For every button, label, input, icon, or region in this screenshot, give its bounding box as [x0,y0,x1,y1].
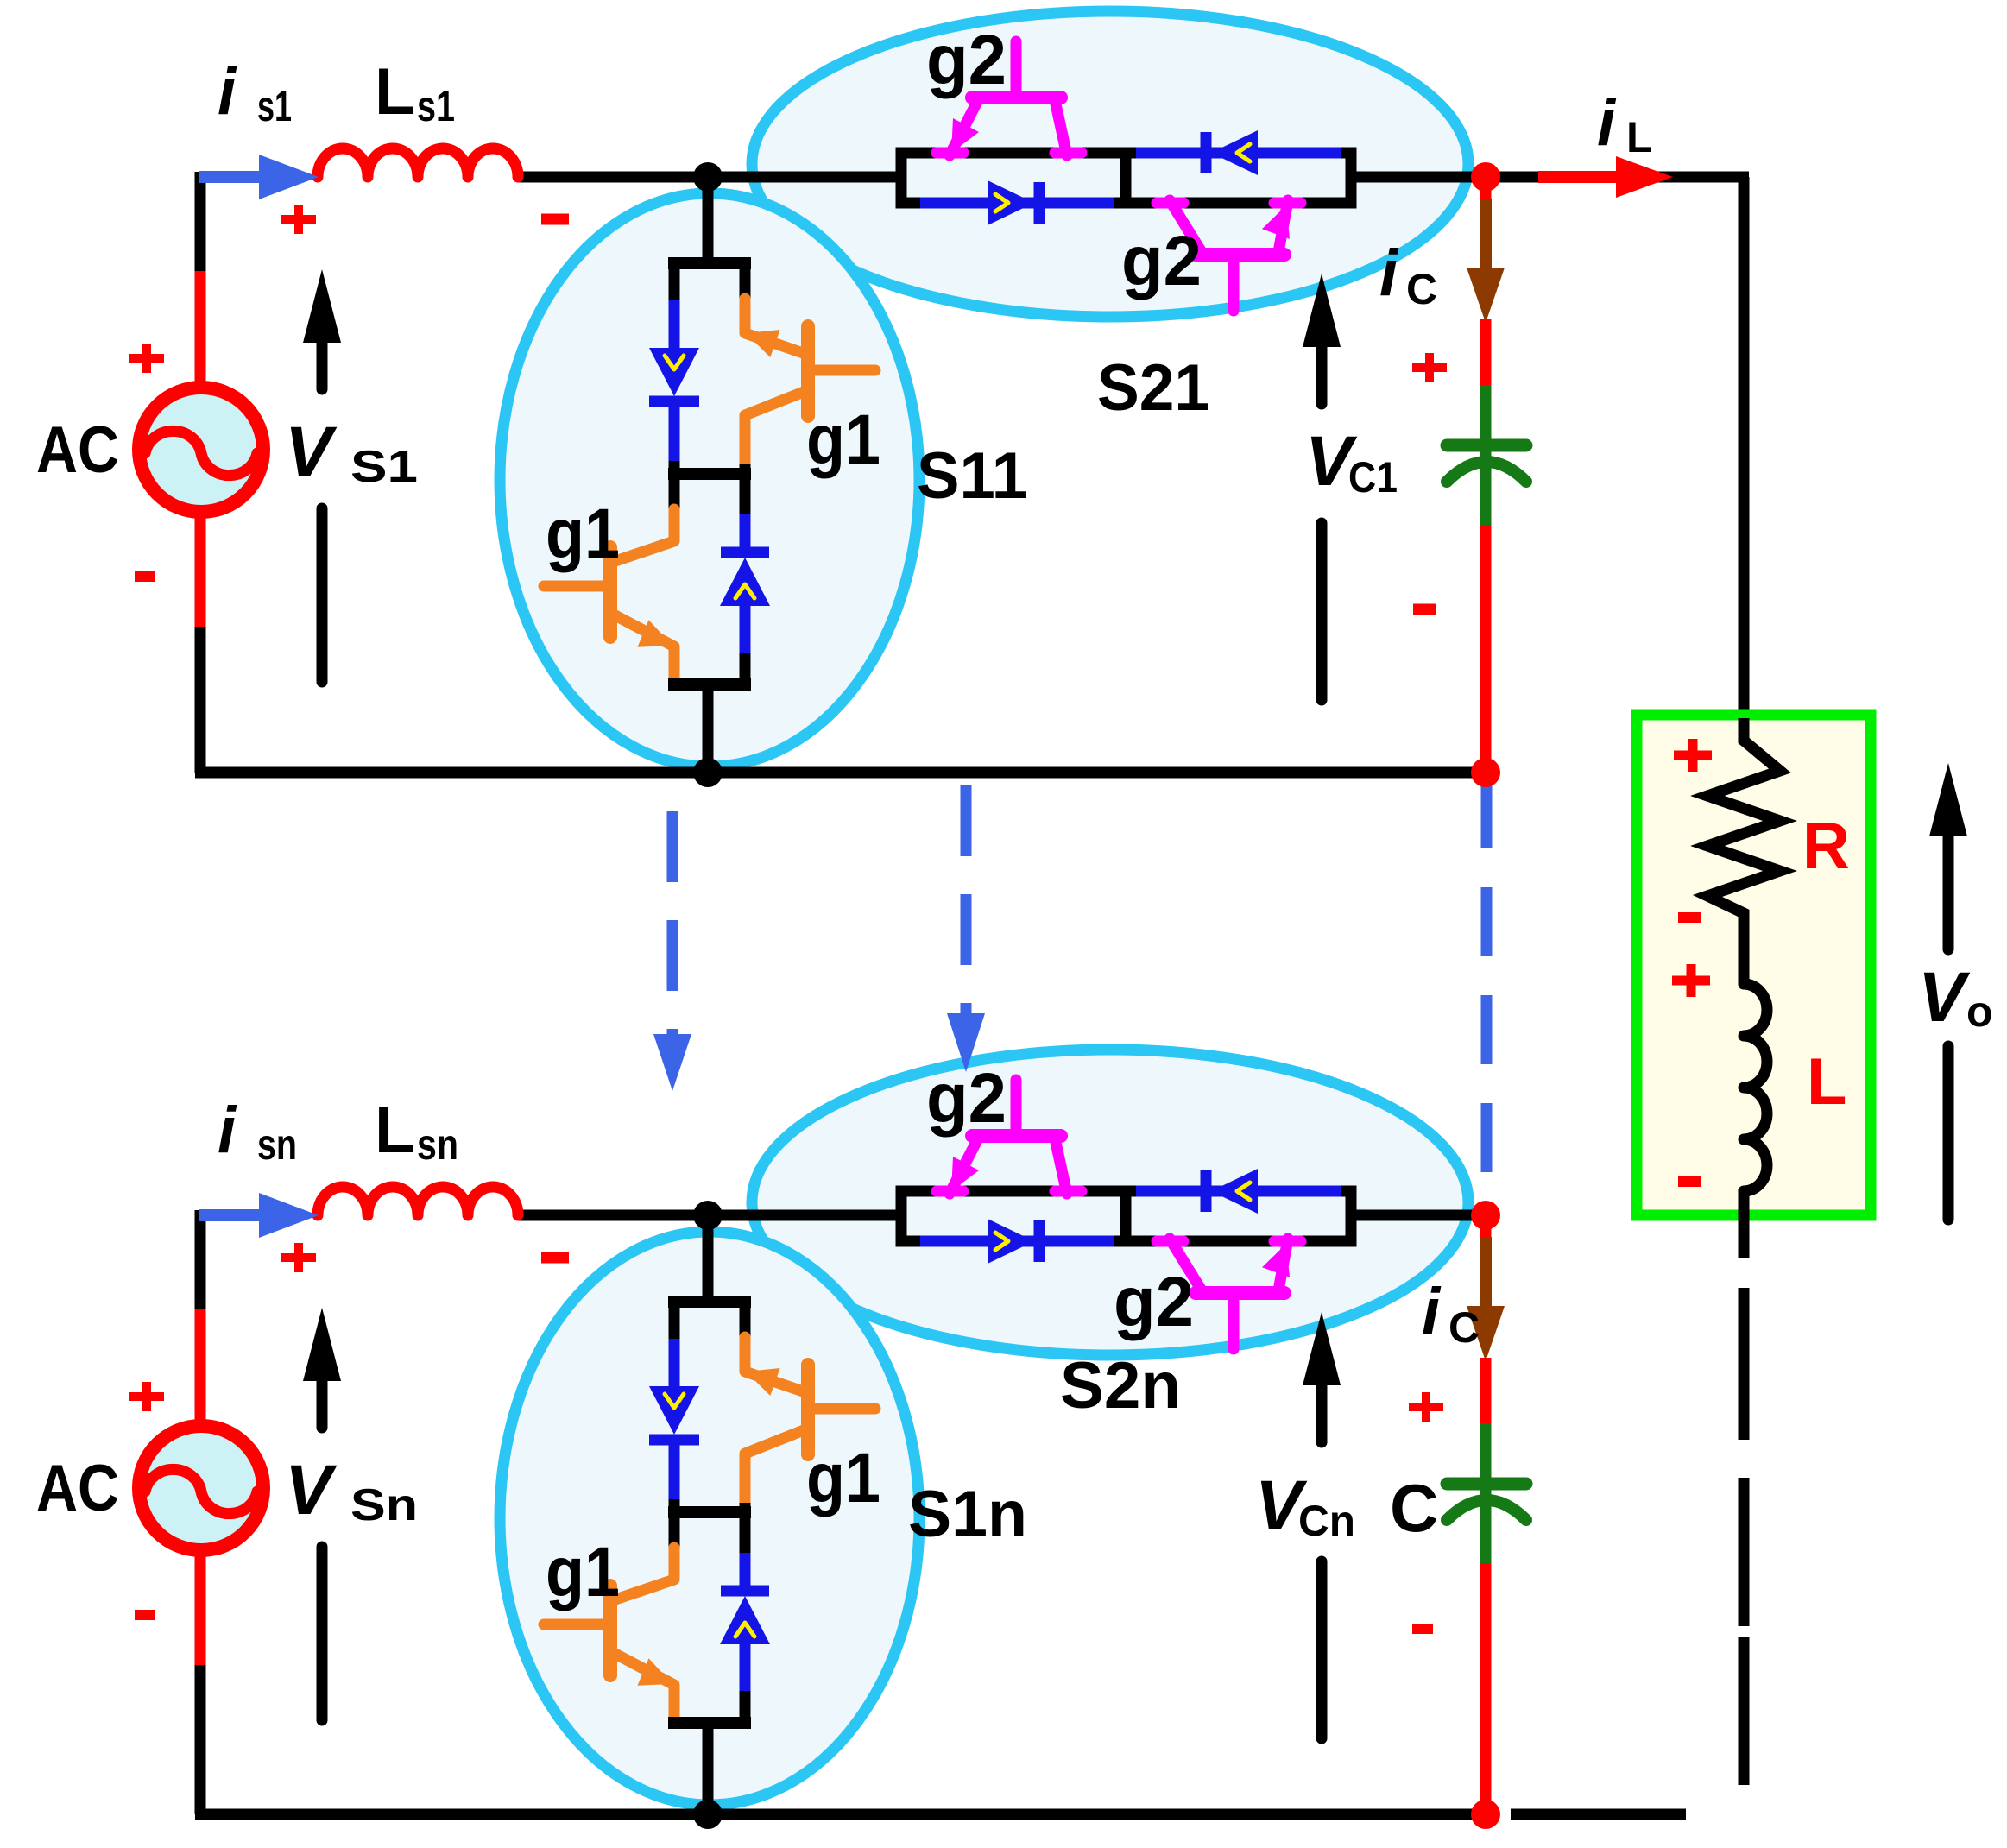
transistor S21 upper right tap [1055,148,1082,159]
junction node C bottom [1471,1201,1500,1230]
voltage arrow VC1 head [1303,274,1341,347]
current arrow isn tail [199,1209,264,1221]
transistor S21 upper left tap [937,148,963,159]
wire source branch lower red [195,1546,206,1668]
svg-text:R: R [1802,810,1850,883]
voltage arrow Vo head [1929,763,1967,836]
label minus below AC bottom [135,1610,155,1620]
wire capacitor branch red lower [1480,525,1492,773]
label minus before S11 [541,214,569,225]
switch module S11 ellipse [500,193,919,766]
transistor S21 upper left diagonal [950,100,978,155]
inductor L coil [1744,984,1767,1191]
S1n right-upper black stub [740,1302,751,1340]
junction node D bottom [1471,1800,1500,1829]
wire capacitor branch red upper [1480,177,1492,207]
svg-text:sn: sn [257,1120,297,1169]
transistor S11 upper bar [801,326,815,416]
svg-text:C1: C1 [1348,453,1398,501]
wire source branch lower black [195,627,206,773]
wire bottom rail [195,767,1486,779]
transistor S2n lower left diagonal [1170,1239,1202,1290]
svg-text:AC: AC [36,1452,119,1525]
wire capacitor branch red mid [1480,1358,1492,1427]
wire source branch lower red [195,508,206,630]
svg-text:V: V [285,1451,338,1529]
wire inside load box lower [1739,1189,1750,1258]
svg-text:L: L [375,55,414,129]
switch module S2n ellipse [752,1050,1468,1355]
S21 right rectangle [1126,153,1351,203]
transistor S2n upper (magenta) gate lead [1011,1080,1022,1133]
svg-text:S21: S21 [1097,351,1209,425]
S1n right-mid black stub [740,1503,751,1518]
label plus cap top [1412,363,1447,372]
label plus above AC bottom [129,1392,164,1401]
diode S11 lower-right lead2 [740,606,751,656]
svg-text:g2: g2 [1114,1263,1194,1341]
junction node D top [1471,758,1500,787]
transistor S1n lower bar [603,1586,617,1675]
S11 bottom stub wire [703,684,714,773]
dashed load return line seg1 [1739,1288,1750,1440]
svg-text:L: L [375,1094,414,1167]
diode S1n lower-right lead [740,1553,751,1591]
S11 left-lower black stub [669,678,680,691]
diode S1n upper-left lead2 [669,1440,680,1503]
S1n right-bottom black stub [740,1691,751,1727]
svg-text:i: i [218,1094,237,1167]
capacitor C1 curved plate [1447,462,1526,482]
diode S11 lower-right triangle [720,558,770,606]
svg-text:S11: S11 [917,439,1027,513]
svg-text:Sn: Sn [350,1480,418,1530]
diode S21 lower-left triangle [988,180,1034,225]
diode S2n upper-right lead [1136,1186,1341,1197]
voltage arrow VS1 shaft upper [317,338,328,389]
S2n left rectangle [901,1191,1126,1241]
wire inside load box upper [1739,718,1750,742]
transistor S21 upper bar [972,91,1061,104]
voltage arrow VCn head [1303,1312,1341,1385]
current arrow is1 tail [199,171,264,183]
voltage arrow VCn shaft upper [1316,1381,1328,1442]
S2n right rectangle [1126,1191,1351,1241]
wire inductor to node to S-module [518,1210,905,1221]
S11 top bar [668,257,751,269]
transistor S11 lower emitter diagonal [610,613,674,682]
label minus cap top [1413,604,1436,615]
diode S2n lower-left cathode bar [1034,1220,1045,1262]
svg-text:g2: g2 [926,1059,1007,1138]
S1n top stub wire [703,1215,714,1307]
S1n bottom bar [668,1717,751,1729]
AC source VSn sine wave [145,1469,257,1513]
dashed blue arrow middle head [947,1013,985,1072]
load current arrow iL head [1616,156,1673,198]
S1n top bar [668,1296,751,1308]
diode S21 upper-right cathode bar [1201,132,1212,173]
label minus before S1n [541,1252,569,1264]
transistor S21 upper emitter arrowhead [951,118,979,153]
diode S11 upper-left cathode bar [649,396,699,407]
capacitor Cn top plate [1447,1478,1526,1491]
label minus below AC top [135,571,155,582]
capacitor current arrow (brown) head [1467,268,1505,323]
svg-text:g1: g1 [806,401,880,479]
dashed bottom rail extension [1511,1809,1686,1820]
transistor S1n upper gate lead [812,1403,875,1415]
voltage arrow Vo shaft upper [1943,832,1954,949]
load box plus mid [1672,976,1710,986]
svg-text:i: i [1379,237,1399,310]
transistor S2n lower right tap [1274,1236,1301,1247]
transistor S2n upper left diagonal [950,1138,978,1194]
junction node B top [693,758,723,787]
svg-text:C: C [1406,265,1437,313]
voltage arrow VS1 shaft lower [317,508,328,682]
S1n bottom stub wire [703,1723,714,1814]
transistor S2n upper right diagonal [1055,1138,1067,1194]
transistor S11 lower (orange) collector elbow [610,509,674,563]
transistor S21 upper (magenta) gate lead [1011,41,1022,95]
dashed load return line seg2 [1739,1478,1750,1626]
diode S1n upper-left lead [669,1339,680,1387]
svg-text:C: C [1390,1470,1438,1546]
capacitor Cn green lead upper [1480,1423,1492,1479]
svg-text:i: i [1597,86,1617,160]
voltage arrow VSn shaft upper [317,1377,328,1428]
transistor S2n lower left tap [1157,1236,1183,1247]
diode S11 lower-right yellow mark [735,584,754,598]
transistor S21 lower right tap [1274,198,1301,209]
diode S21 lower-left yellow mark [995,194,1008,211]
svg-text:g1: g1 [806,1439,880,1517]
diode S21 upper-right lead [1136,148,1341,159]
S1n right-lower black stub [740,1512,751,1556]
diode S1n lower-right triangle [720,1596,770,1644]
S11 left-mid black stub [669,474,680,513]
S11 left-upper black stub [669,263,680,304]
svg-text:L: L [1807,1045,1846,1119]
transistor S2n upper emitter arrowhead [951,1157,979,1191]
load current arrow iL tail [1538,171,1621,183]
transistor S1n lower emitter diagonal [610,1651,674,1720]
diode S1n upper-left cathode bar [649,1435,699,1446]
diode S11 lower-right lead [740,514,751,552]
wire source branch upper red [195,271,206,392]
voltage arrow VC1 shaft upper [1316,343,1328,404]
current arrow is1 head [259,155,319,199]
AC source VS1 circle [139,388,263,512]
dashed blue link right [1481,779,1493,1195]
wire source branch upper black [195,1210,206,1313]
wire capacitor branch red upper [1480,1215,1492,1246]
transistor S11 lower gate lead [544,581,606,592]
transistor S2n lower (magenta) gate lead [1228,1297,1240,1349]
diode S1n lower-right lead2 [740,1644,751,1694]
label minus cap bottom [1412,1624,1433,1634]
wire source branch lower black [195,1665,206,1814]
S11 right-bottom black stub [740,653,751,689]
transistor S1n upper bar [801,1365,815,1454]
diode S11 upper-left yellow mark [665,356,684,369]
svg-text:i: i [218,55,237,129]
label plus cap bottom [1409,1403,1443,1411]
svg-text:s1: s1 [417,82,455,130]
transistor S11 lower bar [603,547,617,637]
transistor S1n upper (orange) collector elbow [745,1337,808,1393]
transistor S21 lower (magenta) gate lead [1228,259,1240,311]
junction node A top [693,162,723,192]
capacitor C1 green lead upper [1480,385,1492,440]
S11 top stub wire [703,177,714,268]
dashed blue arrow left [667,811,678,1034]
svg-text:g2: g2 [926,21,1007,99]
diode S11 lower-right cathode bar [721,547,769,558]
voltage arrow VCn shaft lower [1316,1561,1328,1738]
transistor S11 upper (orange) collector elbow [745,299,808,355]
svg-text:g1: g1 [546,495,620,573]
svg-text:o: o [1966,987,1993,1036]
transistor S21 upper right diagonal [1055,100,1067,155]
transistor S21 lower left tap [1157,198,1183,209]
diode S2n lower-left lead [920,1236,1114,1247]
diode S2n lower-left triangle [988,1219,1034,1264]
wire load branch vertical [1739,177,1750,723]
S11 bottom bar [668,678,751,691]
label plus above AC top [129,354,164,363]
transistor S21 lower emitter arrowhead [1262,205,1290,239]
dashed blue arrow left head [653,1034,691,1091]
diode S11 upper-left triangle [649,348,699,396]
capacitor Cn curved plate [1447,1500,1526,1520]
svg-text:sn: sn [417,1120,458,1169]
resistor R zigzag [1707,729,1780,984]
svg-text:s1: s1 [257,82,292,130]
svg-text:C: C [1448,1303,1480,1352]
load box [1637,715,1871,1215]
S1n left-lower black stub [669,1717,680,1729]
transistor S2n upper left tap [937,1186,963,1197]
inductor Lsn [318,1187,518,1215]
capacitor current arrow (brown) tail [1480,1237,1492,1309]
capacitor Cn green lead lower [1480,1489,1492,1567]
diode S2n upper-right triangle [1211,1169,1258,1214]
transistor S2n upper bar [972,1129,1061,1143]
wire inductor to node to S-module [518,172,905,183]
diode S1n lower-right yellow mark [735,1623,754,1637]
transistor S1n lower emitter arrowhead [638,1658,673,1685]
wire top rail to load corner [1480,172,1749,183]
inductor Ls1 [318,148,518,177]
S1n mid bar [668,1506,751,1518]
load box plus top [1674,751,1712,760]
load box minus mid [1678,912,1701,923]
transistor S11 upper gate lead [812,365,875,376]
diode S2n upper-right cathode bar [1201,1170,1212,1212]
svg-text:S1: S1 [350,442,418,492]
switch module S1n ellipse [500,1232,919,1805]
transistor S2n upper right tap [1055,1186,1082,1197]
transistor S11 upper lower diagonal [745,390,808,470]
diode S11 upper-left lead2 [669,401,680,464]
S1n left-mid black stub [669,1512,680,1551]
voltage arrow VS1 head [303,269,341,343]
capacitor current arrow (brown) tail [1480,199,1492,271]
capacitor C1 green lead lower [1480,451,1492,528]
transistor S1n lower gate lead [544,1619,606,1630]
transistor S1n lower (orange) collector elbow [610,1548,674,1601]
transistor S21 lower left diagonal [1170,200,1202,252]
S1n left branch black stub above mid bar [669,1499,680,1518]
wire source branch upper red [195,1309,206,1430]
current arrow isn head [259,1193,319,1238]
wire capacitor branch red lower [1480,1563,1492,1814]
svg-text:AC: AC [36,413,119,487]
voltage arrow VSn head [303,1308,341,1381]
S21 left rectangle [901,153,1126,203]
diode S21 upper-right triangle [1211,130,1258,175]
S11 mid bar [668,468,751,480]
diode S1n upper-left yellow mark [665,1394,684,1408]
svg-text:i: i [1422,1275,1442,1348]
svg-text:S1n: S1n [908,1478,1027,1551]
junction node B bottom [693,1800,723,1829]
wire capacitor branch red mid [1480,319,1492,388]
diode S1n lower-right cathode bar [721,1586,769,1597]
voltage arrow VC1 shaft lower [1316,523,1328,700]
svg-text:V: V [1918,958,1971,1037]
S11 right-mid black stub [740,464,751,480]
transistor S21 lower bar [1196,248,1284,262]
diode S21 lower-left lead [920,198,1114,209]
transistor S2n lower bar [1196,1286,1284,1300]
label plus after is1 [281,215,316,224]
diode S21 upper-right yellow mark [1237,144,1250,161]
svg-text:g2: g2 [1121,222,1202,300]
diode S11 upper-left lead [669,300,680,349]
transistor S1n upper lower diagonal [745,1429,808,1509]
switch module S21 ellipse [752,11,1468,317]
transistor S11 upper emitter arrowhead [746,330,780,357]
S11 left branch black stub above mid bar [669,461,680,480]
svg-text:g1: g1 [546,1533,620,1611]
AC source VS1 sine wave [145,431,257,475]
diode S2n upper-right yellow mark [1237,1183,1250,1200]
transistor S2n lower right diagonal [1278,1239,1288,1290]
junction node C top [1471,162,1500,192]
AC source VSn circle [139,1426,263,1550]
transistor S11 lower emitter arrowhead [638,620,673,646]
load box minus bottom [1678,1176,1701,1187]
S11 right-lower black stub [740,474,751,518]
diode S21 lower-left cathode bar [1034,182,1045,224]
wire source branch upper black [195,172,206,274]
transistor S21 lower right diagonal [1278,200,1288,252]
wire bottom rail [195,1809,1486,1820]
junction node A bottom [693,1201,723,1230]
svg-text:L: L [1626,113,1653,161]
voltage arrow Vo shaft lower [1943,1046,1954,1220]
diode S1n upper-left triangle [649,1386,699,1435]
capacitor current arrow (brown) head [1467,1306,1505,1361]
wire S-module to capacitor node [1347,1210,1492,1221]
transistor S1n upper emitter arrowhead [746,1368,780,1396]
capacitor C1 top plate [1447,439,1526,452]
S11 right-upper black stub [740,263,751,302]
transistor S2n lower emitter arrowhead [1262,1244,1290,1277]
wire S-module to capacitor node [1347,172,1492,183]
svg-text:V: V [285,413,338,491]
S1n left-upper black stub [669,1302,680,1342]
dashed blue arrow middle [961,785,972,1013]
label plus after isn [281,1253,316,1262]
svg-text:S2n: S2n [1060,1349,1181,1422]
dashed load return line seg3 [1739,1637,1750,1785]
diode S2n lower-left yellow mark [995,1233,1008,1250]
voltage arrow VSn shaft lower [317,1547,328,1720]
svg-text:Cn: Cn [1298,1497,1355,1545]
